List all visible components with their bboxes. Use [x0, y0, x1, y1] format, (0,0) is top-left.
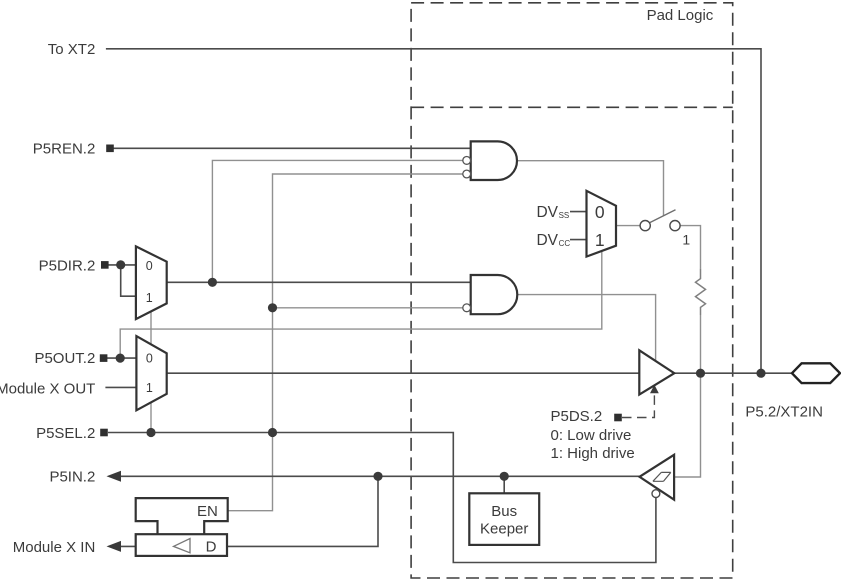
- svg-text:P5DS.2: P5DS.2: [551, 408, 603, 425]
- junction P5DIR input: [116, 260, 125, 269]
- label 0: Low drive: [551, 427, 632, 444]
- wire: switch to resistor and schmitt input: [674, 226, 700, 477]
- label P5DIR.2: [39, 257, 96, 274]
- schmitt hysteresis symbol: [653, 472, 671, 481]
- label P5DS.2: [551, 408, 603, 425]
- mux M3 label 0: [595, 202, 605, 222]
- wire: To XT2 net to pad junction: [106, 49, 761, 373]
- wire: P5SEL vertical branch to AND1 input 3 / AND2 input 2 / EN box: [228, 174, 463, 511]
- svg-text:CC: CC: [559, 239, 571, 248]
- D latch block: [136, 534, 227, 556]
- label DVcc: [536, 232, 570, 249]
- terminal square P5DIR.2: [101, 261, 109, 269]
- AND gate U1 (REN logic, 3-input): [471, 141, 517, 180]
- junction P5IN to bus keeper: [500, 472, 509, 481]
- terminal square P5SEL.2: [100, 429, 108, 437]
- svg-text:1: 1: [595, 230, 605, 250]
- mux M1 label 0: [146, 259, 153, 273]
- svg-text:P5SEL.2: P5SEL.2: [36, 425, 95, 442]
- svg-text:1: 1: [682, 232, 690, 248]
- label P5REN.2: [33, 141, 96, 158]
- svg-text:0: 0: [146, 259, 153, 273]
- bus keeper block: [469, 493, 539, 545]
- svg-text:1: 1: [146, 291, 153, 305]
- resistor R (pullup/pulldown): [696, 269, 706, 315]
- mux M1 P5DIR.2 direction select: [136, 246, 167, 319]
- wire: DVss input stub: [570, 211, 587, 213]
- svg-text:1: 1: [146, 381, 153, 395]
- junction P5SEL at AND branch: [268, 428, 277, 437]
- bubble U1 input 2: [463, 157, 471, 165]
- svg-text:P5DIR.2: P5DIR.2: [39, 257, 96, 274]
- wire: P5SEL.2 net to schmitt enable bubble: [108, 433, 656, 563]
- wire: AND2 output to output driver enable: [517, 295, 656, 363]
- mux M1 label 1: [146, 291, 153, 305]
- bubble U2 input 2: [463, 304, 471, 312]
- junction pad line to XT2: [756, 369, 765, 378]
- svg-text:1: High drive: 1: High drive: [551, 445, 635, 462]
- svg-text:Module X IN: Module X IN: [13, 539, 96, 556]
- dashed box Pad Logic outer boundary: [411, 3, 733, 578]
- wire: P5REN.2 to AND1 input 1: [113, 147, 471, 149]
- label To XT2: [48, 41, 96, 58]
- svg-text:DV: DV: [536, 232, 558, 249]
- label 1: High drive: [551, 445, 635, 462]
- wire: P5OUT.2 to mux input 0: [107, 357, 136, 359]
- label P5IN.2: [49, 469, 95, 486]
- svg-text:Module X OUT: Module X OUT: [0, 380, 95, 397]
- bubble U4 enable: [652, 490, 660, 498]
- wire: DVss/DVcc mux output to switch bubble: [616, 225, 640, 227]
- terminal square P5REN.2: [106, 145, 114, 153]
- svg-text:Pad Logic: Pad Logic: [647, 7, 714, 24]
- svg-text:0: Low drive: 0: Low drive: [551, 427, 632, 444]
- junction P5DIR mux output: [208, 278, 217, 287]
- switch S1 label 1: [682, 232, 690, 248]
- arrowhead P5DS.2 into driver: [650, 385, 659, 394]
- wire: P5IN.2 line from schmitt output: [119, 475, 640, 477]
- label P5OUT.2: [34, 350, 95, 367]
- mux M2 label 0: [146, 352, 153, 366]
- arrow Module X IN: [107, 541, 122, 552]
- label Pad Logic: [647, 7, 714, 24]
- mux M3 label 1: [595, 230, 605, 250]
- wire: bus keeper stub: [503, 476, 505, 493]
- bubble U1 input 3: [463, 170, 471, 178]
- junction pad line at resistor: [696, 369, 705, 378]
- wire: P5DIR.2 to mux inputs 0 and 1: [108, 265, 136, 296]
- AND gate U2 (direction logic, 2-input): [471, 275, 518, 314]
- label Module X IN: [13, 539, 96, 556]
- junction AND2 input branch: [268, 303, 277, 312]
- switch S1 bubble left: [640, 221, 650, 231]
- mux M3 DVss/DVcc pull select: [587, 191, 617, 257]
- EN latch enable block: [136, 498, 228, 534]
- wire: pad line driver output to pin: [674, 372, 792, 374]
- label DVss: [536, 204, 569, 221]
- wire: P5OUT up-branch to DVss/DVcc mux select: [120, 251, 602, 358]
- wire: D latch input from P5IN junction: [227, 476, 378, 546]
- wire: Module X IN from D latch: [119, 545, 136, 547]
- junction P5OUT input: [116, 354, 125, 363]
- bus keeper text: [480, 503, 528, 538]
- output driver U3 (tristate buffer): [639, 350, 674, 394]
- svg-text:0: 0: [595, 202, 605, 222]
- svg-text:DV: DV: [536, 204, 558, 221]
- svg-text:D: D: [206, 539, 217, 556]
- junction P5IN to D latch: [373, 472, 382, 481]
- wire: Module X OUT to mux input 1: [105, 386, 136, 388]
- label Module X OUT: [0, 380, 95, 397]
- wire: P5DIR mux output to AND2 input 1: [167, 281, 471, 283]
- label P5.2/XT2IN: [745, 403, 823, 420]
- label P5SEL.2: [36, 425, 95, 442]
- mux M2 label 1: [146, 381, 153, 395]
- D latch clock triangle: [174, 539, 191, 553]
- switch S1 bubble right: [670, 221, 680, 231]
- mux M2 P5OUT.2 output select: [136, 336, 166, 410]
- terminal square P5DS.2: [614, 414, 622, 422]
- terminal square P5OUT.2: [100, 354, 108, 362]
- junction P5SEL at mux select branch: [146, 428, 155, 437]
- EN label: [197, 503, 218, 520]
- svg-text:0: 0: [146, 352, 153, 366]
- svg-text:P5OUT.2: P5OUT.2: [34, 350, 95, 367]
- svg-text:P5.2/XT2IN: P5.2/XT2IN: [745, 403, 823, 420]
- pad pin hexagon: [792, 363, 840, 383]
- P5DS.2 dashed control line with arrow: [622, 392, 654, 418]
- wire: DVcc input stub: [570, 239, 587, 241]
- svg-text:P5IN.2: P5IN.2: [49, 469, 95, 486]
- wire: P5SEL branch to P5DIR and P5OUT mux selects: [150, 311, 152, 432]
- wire: P5DIR mux output up-branch to AND1 input 2: [212, 160, 463, 282]
- wire: switch lever (open switch arm): [650, 210, 676, 223]
- arrow P5IN.2: [107, 471, 122, 482]
- svg-text:Keeper: Keeper: [480, 521, 528, 538]
- D label: [206, 539, 217, 556]
- wire: P5OUT mux output to output driver input: [167, 372, 640, 374]
- svg-text:Bus: Bus: [491, 503, 517, 520]
- svg-text:To XT2: To XT2: [48, 41, 96, 58]
- dashed divider inside Pad Logic: [411, 106, 733, 108]
- wire: AND1 output to switch lever: [517, 161, 664, 216]
- svg-text:SS: SS: [559, 211, 570, 220]
- svg-text:P5REN.2: P5REN.2: [33, 141, 96, 158]
- schmitt trigger U4 (input buffer): [640, 455, 675, 500]
- svg-text:EN: EN: [197, 503, 218, 520]
